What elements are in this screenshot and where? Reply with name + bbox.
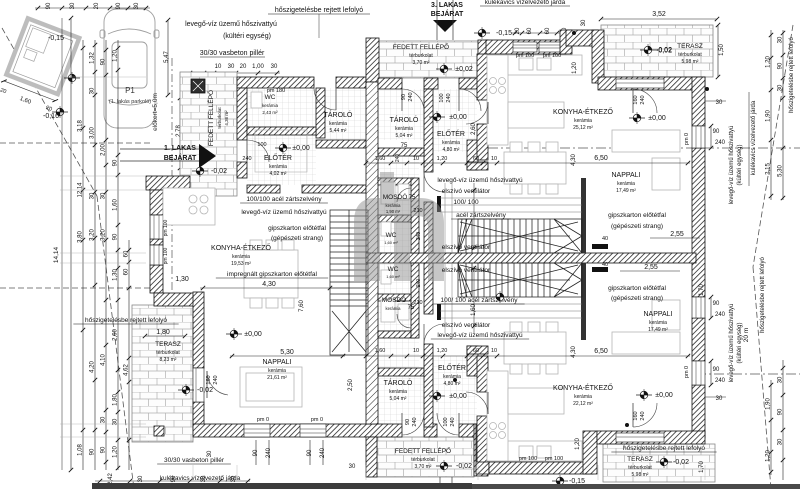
svg-text:3,80: 3,80	[78, 231, 84, 243]
svg-text:ELŐTÉR: ELŐTÉR	[438, 363, 466, 372]
svg-text:kerámia: kerámia	[617, 181, 635, 187]
svg-text:240: 240	[320, 447, 326, 458]
svg-text:2,15: 2,15	[766, 163, 772, 175]
svg-text:4,20: 4,20	[90, 361, 96, 373]
svg-text:1,00: 1,00	[252, 64, 264, 70]
svg-text:20: 20	[240, 64, 247, 70]
svg-text:10: 10	[413, 348, 419, 354]
svg-text:-0,15: -0,15	[569, 478, 585, 485]
svg-text:2,42: 2,42	[108, 473, 114, 485]
svg-text:ELŐTÉR: ELŐTÉR	[437, 129, 465, 138]
svg-text:30: 30	[90, 192, 96, 199]
svg-text:(kültéri egység): (kültéri egység)	[737, 144, 743, 185]
svg-text:30/30 vasbeton pillér: 30/30 vasbeton pillér	[200, 50, 265, 57]
svg-text:TERASZ: TERASZ	[627, 456, 653, 463]
svg-text:210: 210	[413, 208, 422, 214]
svg-text:1,90: 1,90	[766, 110, 772, 122]
svg-text:WC: WC	[386, 232, 397, 239]
svg-text:kerámia: kerámia	[395, 126, 413, 132]
svg-text:3,18: 3,18	[78, 120, 84, 132]
svg-text:20: 20	[515, 27, 521, 34]
svg-text:20 m: 20 m	[743, 328, 750, 342]
svg-text:90: 90	[101, 58, 107, 65]
svg-text:100/ 100 acél zártszelvény: 100/ 100 acél zártszelvény	[441, 297, 519, 304]
svg-text:1,60 m²: 1,60 m²	[384, 240, 398, 245]
svg-text:160: 160	[633, 95, 639, 104]
svg-text:kerámia: kerámia	[269, 164, 287, 170]
svg-text:60: 60	[473, 156, 479, 162]
svg-text:1,30: 1,30	[175, 276, 189, 283]
svg-text:pm 100: pm 100	[519, 456, 537, 462]
svg-text:(1. lakás parkoló): (1. lakás parkoló)	[109, 99, 151, 105]
svg-text:-0,15: -0,15	[48, 35, 64, 42]
svg-text:30: 30	[778, 84, 784, 91]
svg-text:NAPPALI: NAPPALI	[643, 311, 672, 318]
svg-text:1,08: 1,08	[78, 444, 84, 456]
svg-text:kerámia: kerámia	[574, 394, 592, 400]
svg-text:kerámia: kerámia	[442, 140, 460, 146]
svg-text:2,43 m²: 2,43 m²	[262, 110, 278, 115]
svg-text:6,50: 6,50	[594, 155, 608, 162]
svg-text:pm 0: pm 0	[684, 133, 690, 145]
svg-text:90: 90	[713, 301, 720, 307]
svg-text:gipszkarton előtétfal: gipszkarton előtétfal	[268, 225, 326, 232]
svg-text:elszívó ventilátor: elszívó ventilátor	[442, 267, 491, 274]
svg-text:75: 75	[408, 305, 415, 311]
svg-text:4,02 m²: 4,02 m²	[270, 171, 287, 177]
svg-text:WC: WC	[388, 266, 399, 273]
svg-text:4,62: 4,62	[124, 364, 130, 376]
svg-text:160: 160	[206, 375, 212, 384]
svg-text:4,10: 4,10	[101, 354, 107, 366]
svg-text:-0,15: -0,15	[496, 30, 512, 37]
svg-text:30: 30	[207, 450, 213, 457]
svg-text:1,70: 1,70	[699, 461, 705, 473]
svg-text:kerámia: kerámia	[443, 374, 461, 380]
svg-text:10: 10	[215, 64, 222, 70]
svg-text:240: 240	[715, 312, 726, 318]
svg-text:kerámia: kerámia	[386, 306, 402, 311]
svg-text:2,60: 2,60	[471, 123, 477, 135]
svg-text:3,00: 3,00	[90, 127, 96, 139]
svg-text:NAPPALI: NAPPALI	[611, 172, 640, 179]
svg-text:levegő-víz üzemű hőszivattyú: levegő-víz üzemű hőszivattyú	[729, 126, 735, 205]
svg-text:FEDETT FELLÉPŐ: FEDETT FELLÉPŐ	[206, 90, 215, 146]
svg-text:TÁROLÓ: TÁROLÓ	[390, 115, 419, 124]
svg-text:1,20: 1,20	[437, 156, 448, 162]
svg-text:30: 30	[581, 19, 587, 26]
svg-text:kulékavics vízelvezető járda: kulékavics vízelvezető járda	[485, 0, 566, 6]
svg-text:90: 90	[778, 62, 784, 69]
svg-text:240: 240	[416, 279, 422, 288]
svg-text:240: 240	[416, 232, 422, 241]
svg-text:kulékavics vízelvezető járda: kulékavics vízelvezető járda	[751, 100, 757, 175]
svg-text:90: 90	[113, 233, 119, 240]
svg-text:-0,02: -0,02	[211, 168, 227, 175]
svg-text:75: 75	[401, 143, 408, 149]
svg-text:10: 10	[413, 156, 419, 162]
svg-text:3,20: 3,20	[90, 229, 96, 241]
svg-text:térburkolat: térburkolat	[217, 107, 222, 129]
svg-text:P1: P1	[125, 86, 135, 95]
svg-text:KONYHA-ÉTKEZŐ: KONYHA-ÉTKEZŐ	[553, 107, 613, 116]
svg-text:impregnált gipszkarton előtétf: impregnált gipszkarton előtétfal	[227, 271, 318, 278]
svg-text:2,55: 2,55	[644, 264, 658, 271]
svg-text:90: 90	[253, 449, 259, 456]
svg-text:5,30: 5,30	[778, 165, 784, 177]
svg-text:90: 90	[713, 367, 720, 373]
svg-text:(gépészeti strang): (gépészeti strang)	[611, 295, 663, 302]
svg-text:TÁROLÓ: TÁROLÓ	[384, 378, 413, 387]
svg-text:(kültéri egység): (kültéri egység)	[223, 33, 271, 40]
svg-text:-0,02: -0,02	[673, 459, 689, 466]
svg-text:kerámia: kerámia	[574, 118, 592, 124]
svg-text:TERASZ: TERASZ	[677, 43, 703, 50]
svg-text:2,55: 2,55	[670, 231, 684, 238]
svg-text:-0,02: -0,02	[197, 387, 213, 394]
svg-text:-0,02: -0,02	[456, 463, 472, 470]
svg-text:pm 100: pm 100	[545, 456, 563, 462]
svg-text:1,20: 1,20	[766, 56, 772, 68]
svg-text:pm 100: pm 100	[543, 53, 561, 59]
svg-text:±0,00: ±0,00	[655, 392, 673, 399]
svg-text:hőszigetelésbe rejtett lefolyó: hőszigetelésbe rejtett lefolyó	[275, 7, 363, 14]
svg-text:100/100 acél zártszelvény: 100/100 acél zártszelvény	[246, 196, 322, 203]
svg-text:90: 90	[405, 419, 411, 425]
svg-text:1,60 m²: 1,60 m²	[386, 274, 400, 279]
svg-text:3. LAKAS: 3. LAKAS	[431, 2, 463, 9]
svg-text:25,12 m²: 25,12 m²	[573, 125, 593, 131]
svg-text:100/ 100: 100/ 100	[453, 199, 479, 206]
svg-text:14,14: 14,14	[53, 246, 60, 263]
svg-text:±0,00: ±0,00	[292, 145, 310, 152]
svg-text:NAPPALI: NAPPALI	[262, 359, 291, 366]
svg-text:90: 90	[401, 94, 407, 100]
svg-text:előkert=5,0m: előkert=5,0m	[152, 93, 159, 131]
svg-text:30: 30	[70, 2, 76, 9]
svg-text:1,90: 1,90	[766, 398, 772, 410]
svg-text:levegő-víz üzemű hőszivattyú: levegő-víz üzemű hőszivattyú	[185, 21, 277, 28]
svg-text:1,80: 1,80	[113, 394, 119, 406]
svg-text:100: 100	[439, 93, 445, 102]
svg-text:ELŐTÉR: ELŐTÉR	[264, 153, 292, 162]
svg-text:kulékavics vízelvezető járda: kulékavics vízelvezető járda	[160, 475, 241, 482]
svg-text:12,14: 12,14	[78, 182, 84, 198]
svg-text:60: 60	[124, 268, 130, 275]
svg-text:gipszkarton előtétfal: gipszkarton előtétfal	[608, 285, 666, 292]
svg-text:100: 100	[443, 417, 449, 426]
svg-text:hőszigetelésbe rejtett lefolyó: hőszigetelésbe rejtett lefolyó	[85, 317, 167, 324]
svg-text:FEDETT FELLÉPŐ: FEDETT FELLÉPŐ	[395, 446, 451, 455]
svg-text:30: 30	[778, 438, 784, 445]
svg-text:1,20: 1,20	[766, 450, 772, 462]
svg-text:KONYHA-ÉTKEZŐ: KONYHA-ÉTKEZŐ	[553, 383, 613, 392]
svg-text:1,20: 1,20	[113, 50, 119, 62]
svg-text:90: 90	[116, 2, 122, 9]
svg-text:kerámia: kerámia	[386, 203, 402, 208]
svg-text:30: 30	[101, 416, 107, 423]
svg-text:5,04 m²: 5,04 m²	[396, 133, 413, 139]
svg-text:60: 60	[473, 348, 479, 354]
svg-text:30: 30	[90, 87, 96, 94]
svg-text:5,98 m²: 5,98 m²	[682, 59, 699, 65]
svg-text:4,30: 4,30	[262, 281, 276, 288]
svg-text:4,80 m²: 4,80 m²	[444, 381, 461, 387]
svg-text:240: 240	[242, 156, 251, 162]
svg-text:levegő-víz üzemű hőszivattyú: levegő-víz üzemű hőszivattyú	[241, 209, 327, 216]
svg-text:19,53 m²: 19,53 m²	[231, 261, 251, 267]
svg-text:30: 30	[778, 36, 784, 43]
svg-text:1,90 m²: 1,90 m²	[386, 209, 401, 214]
svg-text:240: 240	[640, 411, 646, 420]
svg-text:4,80 m²: 4,80 m²	[443, 147, 460, 153]
svg-text:90: 90	[307, 449, 313, 456]
svg-text:térburkolat: térburkolat	[411, 457, 435, 463]
svg-text:1. LAKAS: 1. LAKAS	[164, 145, 196, 152]
svg-text:térburkolat: térburkolat	[628, 465, 652, 471]
svg-text:40: 40	[602, 236, 608, 242]
svg-text:kerámia: kerámia	[232, 254, 250, 260]
svg-text:1,20: 1,20	[113, 446, 119, 458]
svg-text:210: 210	[413, 300, 422, 306]
svg-text:75: 75	[409, 195, 416, 201]
svg-text:90: 90	[90, 448, 96, 455]
svg-text:3,70 m²: 3,70 m²	[415, 464, 432, 470]
svg-text:pm 0: pm 0	[311, 417, 323, 423]
svg-text:21,61 m²: 21,61 m²	[267, 375, 287, 381]
svg-text:90: 90	[113, 159, 119, 166]
svg-text:160: 160	[633, 411, 639, 420]
svg-text:10: 10	[491, 156, 497, 162]
svg-text:90: 90	[46, 2, 52, 9]
svg-text:5,30: 5,30	[280, 349, 294, 356]
svg-text:hőszigetelésbe rejtett lefolyó: hőszigetelésbe rejtett lefolyó	[623, 445, 705, 452]
svg-text:kerámia: kerámia	[329, 121, 347, 127]
svg-text:60: 60	[545, 27, 551, 34]
svg-text:±0,00: ±0,00	[449, 393, 467, 400]
svg-text:30: 30	[101, 192, 107, 199]
svg-text:1,60: 1,60	[375, 156, 386, 162]
svg-text:10: 10	[491, 348, 497, 354]
svg-text:1,50: 1,50	[719, 44, 725, 56]
svg-text:2,60: 2,60	[113, 329, 119, 341]
svg-text:1,60: 1,60	[375, 348, 386, 354]
svg-text:1,60: 1,60	[471, 304, 477, 316]
svg-text:3,20: 3,20	[101, 229, 107, 241]
svg-text:2,50: 2,50	[348, 379, 354, 391]
svg-text:240: 240	[213, 375, 219, 384]
svg-text:5,47: 5,47	[164, 51, 170, 63]
svg-text:30: 30	[134, 2, 140, 9]
svg-text:4,36 m²: 4,36 m²	[224, 110, 229, 126]
svg-text:240: 240	[450, 417, 456, 426]
svg-text:1,20: 1,20	[437, 348, 448, 354]
svg-text:240: 240	[395, 154, 401, 163]
svg-text:pm 180: pm 180	[267, 88, 285, 94]
svg-text:40: 40	[602, 262, 608, 268]
svg-text:22,12 m²: 22,12 m²	[573, 401, 593, 407]
svg-text:kerámia: kerámia	[262, 103, 279, 108]
svg-text:(gépészeti strang): (gépészeti strang)	[271, 235, 323, 242]
svg-text:pm 100: pm 100	[163, 247, 169, 264]
svg-text:240: 240	[715, 140, 726, 146]
svg-text:90: 90	[778, 408, 784, 415]
svg-text:60: 60	[124, 250, 130, 257]
svg-text:(gépészeti strang): (gépészeti strang)	[611, 223, 663, 230]
svg-text:2,00: 2,00	[101, 144, 107, 156]
svg-text:pm 0: pm 0	[257, 417, 269, 423]
svg-text:5,44 m²: 5,44 m²	[330, 128, 347, 134]
svg-text:elszívó ventilátor: elszívó ventilátor	[442, 244, 491, 251]
svg-text:30/30 vasbeton pillér: 30/30 vasbeton pillér	[164, 457, 225, 464]
svg-text:hőszigetelésbe rejtett lefolyó: hőszigetelésbe rejtett lefolyó	[760, 256, 766, 332]
svg-text:elszívó ventilátor: elszívó ventilátor	[442, 322, 491, 329]
svg-text:240: 240	[446, 93, 452, 102]
svg-text:3,70 m²: 3,70 m²	[413, 60, 430, 66]
svg-text:3,52: 3,52	[652, 11, 666, 18]
svg-text:levegő-víz üzemű hőszivattyú: levegő-víz üzemű hőszivattyú	[729, 304, 735, 383]
svg-text:240: 240	[266, 447, 272, 458]
svg-text:gipszkarton előtétfal: gipszkarton előtétfal	[608, 212, 666, 219]
svg-text:30: 30	[228, 64, 235, 70]
svg-text:térburkolat: térburkolat	[156, 350, 180, 356]
svg-text:térburkolat: térburkolat	[678, 52, 702, 58]
svg-text:30: 30	[271, 64, 278, 70]
svg-text:±0,00: ±0,00	[449, 114, 467, 121]
svg-text:240: 240	[715, 378, 726, 384]
svg-text:MOSDÓ: MOSDÓ	[383, 192, 408, 201]
svg-text:pm 0: pm 0	[684, 366, 690, 378]
svg-text:±0,00: ±0,00	[244, 331, 262, 338]
svg-text:±0,00: ±0,00	[648, 115, 666, 122]
svg-text:8,23 m²: 8,23 m²	[160, 357, 177, 363]
svg-text:WC: WC	[265, 94, 276, 101]
svg-text:±0,02: ±0,02	[455, 66, 473, 73]
svg-text:240: 240	[640, 95, 646, 104]
svg-text:60: 60	[527, 27, 533, 34]
svg-text:KONYHA-ÉTKEZŐ: KONYHA-ÉTKEZŐ	[211, 243, 271, 252]
svg-text:1,30: 1,30	[113, 269, 119, 281]
svg-text:90: 90	[101, 446, 107, 453]
svg-text:90: 90	[713, 129, 720, 135]
svg-text:1,32: 1,32	[90, 52, 96, 64]
svg-text:20: 20	[94, 2, 100, 9]
svg-text:levegő-víz üzemű hőszivattyú: levegő-víz üzemű hőszivattyú	[437, 332, 523, 339]
svg-text:-0,02: -0,02	[656, 47, 672, 54]
svg-text:240: 240	[412, 417, 418, 426]
svg-text:levegő-víz üzemű hőszivattyú: levegő-víz üzemű hőszivattyú	[437, 177, 523, 184]
svg-text:5,98 m²: 5,98 m²	[632, 472, 649, 478]
svg-text:elszívó ventilátor: elszívó ventilátor	[442, 188, 491, 195]
svg-text:BEJÁRAT: BEJÁRAT	[431, 9, 464, 18]
svg-text:térburkolat: térburkolat	[409, 53, 433, 59]
svg-text:acél zártszelvény: acél zártszelvény	[456, 212, 507, 219]
svg-text:6,50: 6,50	[594, 348, 608, 355]
svg-text:kerámia: kerámia	[268, 368, 286, 374]
svg-text:1,20: 1,20	[572, 62, 578, 74]
svg-text:1,20: 1,20	[575, 438, 581, 450]
svg-text:30: 30	[778, 376, 784, 383]
svg-text:30: 30	[138, 475, 144, 482]
svg-text:1,80: 1,80	[156, 329, 170, 336]
svg-text:100: 100	[257, 142, 266, 148]
svg-text:FEDETT FELLÉPŐ: FEDETT FELLÉPŐ	[393, 42, 449, 51]
svg-text:30: 30	[113, 418, 119, 425]
svg-text:7,60: 7,60	[299, 300, 305, 312]
svg-text:240: 240	[408, 92, 414, 101]
svg-text:4,30: 4,30	[571, 154, 577, 166]
svg-text:17,49 m²: 17,49 m²	[616, 188, 636, 194]
svg-text:hőszigetelésbe rejtett lefolyó: hőszigetelésbe rejtett lefolyó	[789, 36, 795, 112]
svg-text:1,70: 1,70	[699, 284, 705, 296]
svg-text:kerámia: kerámia	[649, 320, 667, 326]
svg-text:17,49 m²: 17,49 m²	[648, 327, 668, 333]
svg-text:MOSDÓ: MOSDÓ	[382, 295, 407, 304]
svg-text:5,04 m²: 5,04 m²	[390, 396, 407, 402]
svg-text:30: 30	[349, 464, 356, 470]
svg-text:1,60: 1,60	[113, 199, 119, 211]
svg-text:pm 100: pm 100	[163, 219, 169, 236]
svg-text:4,30: 4,30	[571, 346, 577, 358]
svg-text:TÁROLÓ: TÁROLÓ	[324, 110, 353, 119]
svg-text:TERASZ: TERASZ	[155, 341, 181, 348]
svg-text:pm 100: pm 100	[516, 53, 534, 59]
svg-text:kerámia: kerámia	[389, 389, 407, 395]
